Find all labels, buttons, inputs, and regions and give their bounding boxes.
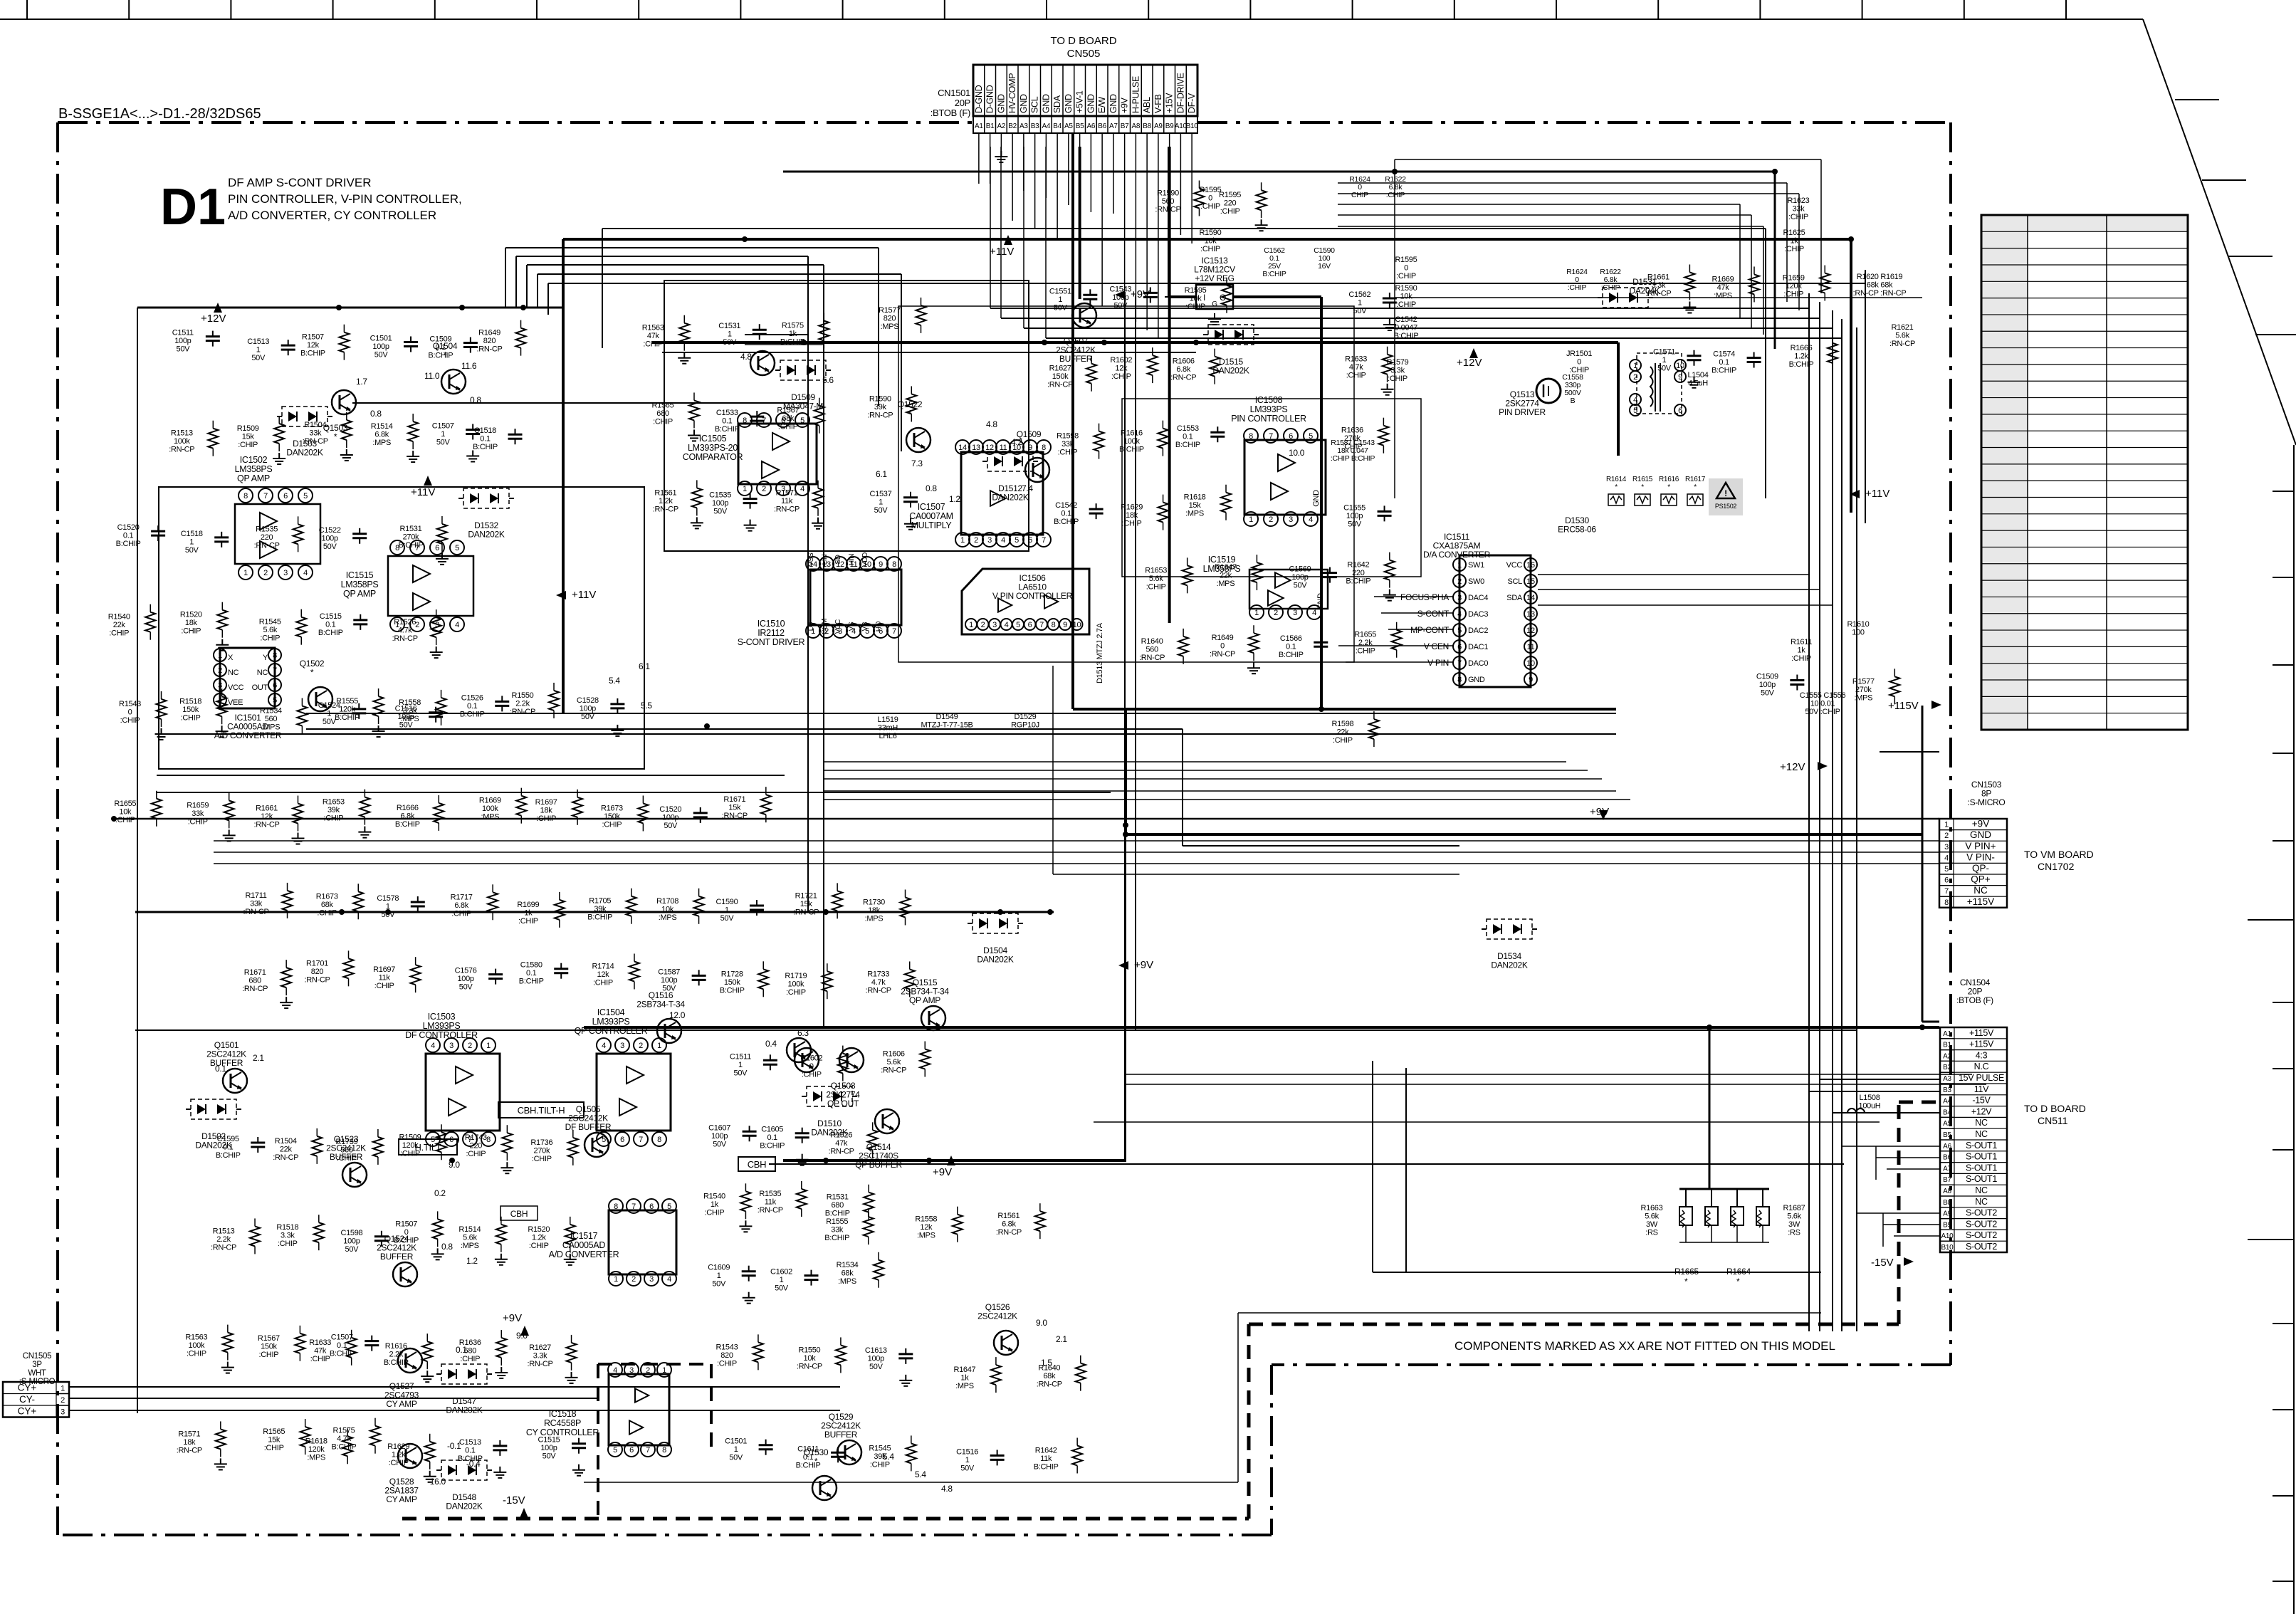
svg-text:R1565: R1565 <box>652 401 674 409</box>
svg-text:120k: 120k <box>1786 282 1802 290</box>
svg-text:5: 5 <box>667 1202 671 1211</box>
svg-text:1: 1 <box>614 1275 618 1284</box>
svg-text:6.8k: 6.8k <box>454 901 468 910</box>
svg-text:R1540: R1540 <box>108 613 130 622</box>
svg-text:33k: 33k <box>309 429 322 438</box>
svg-text:1: 1 <box>243 569 248 577</box>
svg-text:3: 3 <box>629 1366 634 1375</box>
svg-text::CHIP: :CHIP <box>278 1240 298 1248</box>
svg-text:DAC2: DAC2 <box>1468 627 1488 635</box>
svg-text:R1673: R1673 <box>601 804 623 812</box>
svg-text:R1614: R1614 <box>1606 476 1627 483</box>
svg-text:R1518: R1518 <box>276 1223 298 1232</box>
svg-text:2: 2 <box>631 1275 636 1284</box>
svg-text::RN-CP: :RN-CP <box>797 1362 822 1371</box>
svg-text:R1618: R1618 <box>1184 493 1206 502</box>
svg-text:100k: 100k <box>1123 437 1140 446</box>
svg-text:R1567: R1567 <box>777 407 799 415</box>
svg-text:100p: 100p <box>661 976 677 985</box>
svg-text:DF-DRIVE: DF-DRIVE <box>1175 73 1185 113</box>
svg-text:+9V: +9V <box>503 1312 522 1324</box>
svg-text:100k: 100k <box>174 437 190 446</box>
svg-text:R1598: R1598 <box>1057 432 1079 441</box>
svg-text:C1555: C1555 <box>1343 503 1365 512</box>
svg-text:R1653: R1653 <box>1145 566 1167 575</box>
svg-text:0.1: 0.1 <box>215 1064 226 1074</box>
svg-text::MPS: :MPS <box>1854 693 1872 702</box>
svg-text::RN-CP: :RN-CP <box>1889 340 1915 348</box>
svg-text::RN-CP: :RN-CP <box>793 908 819 916</box>
svg-text::RN-CP: :RN-CP <box>169 446 194 454</box>
svg-text:B8: B8 <box>1143 122 1151 130</box>
svg-text:DAN202K: DAN202K <box>992 493 1029 503</box>
svg-text:R1558: R1558 <box>915 1215 937 1224</box>
svg-text:V PIN: V PIN <box>1427 658 1449 668</box>
svg-text:0.1: 0.1 <box>456 1345 467 1355</box>
svg-text:GND: GND <box>1086 94 1096 113</box>
svg-text:68k: 68k <box>1043 1372 1056 1380</box>
svg-text:4: 4 <box>1944 854 1949 862</box>
svg-text:B:CHIP: B:CHIP <box>1054 518 1079 526</box>
svg-text:CBH: CBH <box>510 1209 528 1219</box>
svg-text:VS: VS <box>848 622 856 631</box>
svg-text:5.4: 5.4 <box>609 676 620 686</box>
svg-text:1k: 1k <box>1797 646 1805 655</box>
svg-text:C1605: C1605 <box>761 1126 783 1134</box>
svg-text:6: 6 <box>1457 643 1462 651</box>
svg-text:1: 1 <box>1457 561 1462 570</box>
svg-text:+9V: +9V <box>1972 819 1989 829</box>
svg-text::MPS: :MPS <box>307 1453 325 1462</box>
svg-text:*: * <box>1736 1277 1740 1287</box>
svg-text:1.2k: 1.2k <box>392 1450 406 1459</box>
svg-text:S-OUT2: S-OUT2 <box>1966 1219 1997 1229</box>
svg-text:MTZJ-T-77-15B: MTZJ-T-77-15B <box>921 721 973 730</box>
svg-text:D-GND: D-GND <box>985 85 995 113</box>
svg-text:2SB734-T-34: 2SB734-T-34 <box>636 1000 685 1010</box>
svg-text:R1531: R1531 <box>827 1193 849 1202</box>
svg-text:5.4: 5.4 <box>883 1452 894 1462</box>
svg-text:150k: 150k <box>1052 372 1069 381</box>
svg-text:100p: 100p <box>372 342 389 351</box>
svg-text:GND: GND <box>996 94 1006 113</box>
svg-text:R1535: R1535 <box>256 525 278 533</box>
svg-text:-0.4: -0.4 <box>466 1459 481 1469</box>
svg-text:C1562: C1562 <box>1348 290 1370 299</box>
svg-text:B:CHIP: B:CHIP <box>824 1234 849 1242</box>
svg-text:1: 1 <box>327 709 331 718</box>
svg-text:5: 5 <box>1016 621 1020 629</box>
svg-text:*: * <box>1615 483 1618 491</box>
svg-text:0.8: 0.8 <box>470 395 481 405</box>
svg-text:A8: A8 <box>1132 122 1141 130</box>
svg-text::CHIP: :CHIP <box>1601 283 1620 292</box>
svg-text:B10: B10 <box>1941 1244 1954 1252</box>
svg-text:R1595: R1595 <box>1185 286 1207 295</box>
svg-text:8: 8 <box>1249 432 1253 441</box>
svg-text:560: 560 <box>340 1146 353 1154</box>
svg-text:5.6k: 5.6k <box>1787 1212 1801 1221</box>
svg-text:C1607: C1607 <box>708 1123 730 1132</box>
svg-text:50V: 50V <box>542 1452 557 1461</box>
svg-text:R1555: R1555 <box>826 1217 848 1226</box>
svg-text:V PIN-: V PIN- <box>1966 851 1995 862</box>
svg-text::CHIP: :CHIP <box>778 423 798 431</box>
svg-text:R1602: R1602 <box>800 1054 822 1063</box>
svg-text:50V: 50V <box>874 506 888 515</box>
svg-text:MP-CONT: MP-CONT <box>1410 625 1450 635</box>
svg-text:5: 5 <box>1457 627 1462 635</box>
svg-text:C1520: C1520 <box>117 523 140 532</box>
svg-text:4.5uH: 4.5uH <box>1688 379 1708 388</box>
svg-text:DAN202K: DAN202K <box>286 448 323 458</box>
svg-text:100p: 100p <box>343 1237 360 1245</box>
svg-text:9: 9 <box>1678 373 1682 382</box>
svg-text:R1513: R1513 <box>171 429 193 438</box>
svg-text:R1595: R1595 <box>1200 186 1222 194</box>
svg-text:CY-: CY- <box>19 1394 35 1405</box>
svg-text:B1: B1 <box>1943 1042 1951 1049</box>
svg-text:S-OUT2: S-OUT2 <box>1966 1208 1997 1218</box>
svg-text::RN-CP: :RN-CP <box>254 541 280 550</box>
svg-text::CHIP: :CHIP <box>181 627 201 636</box>
svg-text::CHIP: :CHIP <box>1396 300 1416 309</box>
svg-text:QP CONTROLLER: QP CONTROLLER <box>575 1026 648 1036</box>
svg-text:14: 14 <box>958 444 967 452</box>
svg-text:A7: A7 <box>1943 1165 1951 1173</box>
svg-text:3: 3 <box>1293 609 1297 617</box>
svg-text:1: 1 <box>780 1276 784 1284</box>
svg-text:R1507: R1507 <box>302 333 324 342</box>
svg-text:B:CHIP: B:CHIP <box>216 1151 241 1160</box>
svg-text::RN-CP: :RN-CP <box>510 708 535 716</box>
svg-text::RN-CP: :RN-CP <box>1139 654 1165 662</box>
svg-text:R1705: R1705 <box>589 897 611 906</box>
svg-text:B:CHIP: B:CHIP <box>1279 651 1304 659</box>
svg-text:2: 2 <box>61 1396 65 1405</box>
svg-text:1: 1 <box>743 485 747 493</box>
svg-text:1.2: 1.2 <box>949 494 960 504</box>
svg-text:R1509: R1509 <box>399 1133 421 1141</box>
svg-text:1: 1 <box>1058 295 1062 304</box>
svg-text:1k: 1k <box>960 1374 969 1383</box>
svg-text:COMPONENTS MARKED AS XX ARE NO: COMPONENTS MARKED AS XX ARE NOT FITTED O… <box>1454 1339 1835 1353</box>
svg-text:15k: 15k <box>728 804 741 812</box>
svg-text:B9: B9 <box>1943 1221 1951 1229</box>
svg-text:R1743: R1743 <box>465 1133 487 1142</box>
svg-text:8: 8 <box>1042 444 1046 452</box>
svg-text:10k: 10k <box>804 1354 817 1363</box>
svg-text:C1515: C1515 <box>538 1436 560 1445</box>
svg-text:0.1: 0.1 <box>1719 358 1729 367</box>
svg-text:4: 4 <box>602 1042 606 1050</box>
svg-text:V PIN+: V PIN+ <box>1965 841 1996 851</box>
svg-text:R1642: R1642 <box>1347 561 1369 570</box>
svg-text:DAN202K: DAN202K <box>1491 960 1528 970</box>
svg-text:B:CHIP: B:CHIP <box>715 425 740 434</box>
svg-text:R1671: R1671 <box>244 968 266 977</box>
svg-text:6: 6 <box>620 1136 624 1144</box>
svg-text:100p: 100p <box>1112 293 1128 302</box>
svg-text:6: 6 <box>1289 432 1293 441</box>
svg-text:B:CHIP: B:CHIP <box>587 913 612 922</box>
svg-text:R1598: R1598 <box>1331 720 1353 728</box>
svg-text:50V: 50V <box>734 1069 748 1077</box>
svg-text:12.0: 12.0 <box>669 1010 686 1020</box>
svg-text:B:CHIP: B:CHIP <box>825 1210 850 1218</box>
svg-text::RS: :RS <box>1645 1229 1657 1237</box>
svg-text:4:3: 4:3 <box>1976 1050 1988 1060</box>
svg-text:C1576: C1576 <box>455 967 477 975</box>
svg-text::CHIP: :CHIP <box>1791 654 1811 663</box>
svg-text:3: 3 <box>1289 515 1293 524</box>
svg-text::MPS: :MPS <box>955 1382 974 1390</box>
svg-text:DF AMP S-CONT DRIVER: DF AMP S-CONT DRIVER <box>228 176 372 189</box>
svg-text:R1653: R1653 <box>323 798 345 807</box>
svg-text:R1666: R1666 <box>1791 344 1813 352</box>
svg-text:R1610: R1610 <box>1847 620 1870 629</box>
svg-text:A4: A4 <box>1042 122 1051 130</box>
svg-text:GND: GND <box>1041 94 1051 113</box>
svg-text:C1509: C1509 <box>429 335 451 344</box>
svg-text:10 0.01: 10 0.01 <box>1810 700 1835 708</box>
svg-text:1k: 1k <box>524 908 533 917</box>
svg-text:G: G <box>1212 300 1217 308</box>
svg-text::CHIP: :CHIP <box>518 917 538 926</box>
svg-text:50V: 50V <box>1348 520 1362 528</box>
svg-text:R1728: R1728 <box>721 970 743 978</box>
svg-text:R1509: R1509 <box>237 424 259 433</box>
svg-text:1: 1 <box>965 1456 970 1464</box>
svg-text:1: 1 <box>657 1042 661 1050</box>
svg-text:2: 2 <box>468 1042 472 1050</box>
svg-text:1: 1 <box>218 651 222 660</box>
svg-text::RN-CP: :RN-CP <box>253 821 279 829</box>
svg-text:5: 5 <box>800 416 804 425</box>
svg-text:3W: 3W <box>1646 1220 1658 1229</box>
svg-text:WHT: WHT <box>28 1369 46 1378</box>
svg-text:*: * <box>334 432 337 442</box>
svg-text:C1611: C1611 <box>797 1445 819 1453</box>
svg-text:B:CHIP: B:CHIP <box>1711 367 1736 375</box>
svg-text:3: 3 <box>283 569 288 577</box>
svg-text:MULTIPLY: MULTIPLY <box>911 520 953 530</box>
svg-text:680: 680 <box>831 1201 844 1210</box>
svg-text:R1543: R1543 <box>715 1343 738 1351</box>
svg-text:5.6k: 5.6k <box>463 1233 477 1242</box>
svg-text:C1543: C1543 <box>1109 285 1131 293</box>
svg-text:R1563: R1563 <box>642 324 664 332</box>
svg-text:3: 3 <box>620 1042 624 1050</box>
svg-text:3: 3 <box>649 1275 654 1284</box>
svg-text:2: 2 <box>1269 515 1273 524</box>
svg-text::MPS: :MPS <box>481 813 499 822</box>
svg-text:B8: B8 <box>1943 1199 1951 1207</box>
svg-text:H.TILT: H.TILT <box>415 1142 441 1153</box>
svg-text:4.8: 4.8 <box>941 1484 953 1494</box>
svg-text:9: 9 <box>879 560 883 569</box>
svg-text:0: 0 <box>1404 264 1408 273</box>
svg-text:R1736: R1736 <box>530 1138 552 1147</box>
svg-text:20P: 20P <box>955 98 970 108</box>
svg-text:+115V: +115V <box>1888 700 1919 712</box>
svg-text::RN-CP: :RN-CP <box>881 1067 906 1075</box>
svg-text:COMPARATOR: COMPARATOR <box>683 452 743 462</box>
svg-text:R1629: R1629 <box>1121 503 1143 512</box>
svg-text:1: 1 <box>725 906 729 915</box>
svg-text:50V: 50V <box>436 438 451 446</box>
svg-text:NC: NC <box>1975 1129 1988 1139</box>
svg-text:11k: 11k <box>765 1198 777 1206</box>
svg-text:C1609: C1609 <box>708 1264 730 1272</box>
svg-text:DAC4: DAC4 <box>1468 594 1488 602</box>
svg-text:1: 1 <box>256 346 261 355</box>
svg-text::CHIP B:CHIP: :CHIP B:CHIP <box>1331 454 1375 463</box>
svg-text:GND: GND <box>1064 94 1074 113</box>
svg-text:5: 5 <box>1944 865 1949 874</box>
svg-text:50V: 50V <box>662 984 676 992</box>
svg-text:B5: B5 <box>1943 1131 1951 1139</box>
svg-text:R1534: R1534 <box>260 707 282 716</box>
svg-text:B:CHIP: B:CHIP <box>384 1358 409 1367</box>
svg-text:+11V: +11V <box>411 486 435 498</box>
svg-text:7: 7 <box>1944 887 1949 896</box>
svg-text:220: 220 <box>1224 199 1237 208</box>
svg-text:B10: B10 <box>1186 122 1199 130</box>
svg-text::MPS: :MPS <box>917 1232 935 1240</box>
svg-text:0.1: 0.1 <box>526 969 537 978</box>
svg-text:0.1: 0.1 <box>722 417 733 426</box>
svg-text:0.8: 0.8 <box>441 1242 453 1252</box>
svg-text::CHIP: :CHIP <box>643 340 663 349</box>
svg-text:1: 1 <box>1358 298 1362 307</box>
svg-text:10k: 10k <box>1205 237 1217 246</box>
svg-text:6.8k: 6.8k <box>1176 365 1190 374</box>
svg-text:RGP10J: RGP10J <box>1011 721 1039 730</box>
svg-text:!: ! <box>1724 488 1727 498</box>
svg-text:DAN202K: DAN202K <box>468 530 505 540</box>
svg-text:R1625: R1625 <box>1783 229 1805 237</box>
svg-text:50V: 50V <box>1761 689 1775 698</box>
svg-text:4: 4 <box>303 569 308 577</box>
svg-text:C1569: C1569 <box>1289 565 1311 574</box>
svg-text:R1565: R1565 <box>263 1427 285 1436</box>
svg-text::CHIP: :CHIP <box>188 817 208 826</box>
svg-text:12: 12 <box>1526 627 1535 635</box>
svg-text:R1617: R1617 <box>1685 476 1706 483</box>
svg-text:LM358PS: LM358PS <box>341 580 379 589</box>
svg-text:12k: 12k <box>920 1223 933 1232</box>
svg-text:820: 820 <box>311 968 324 976</box>
svg-text:VDD: VDD <box>861 552 869 567</box>
svg-text:50V: 50V <box>345 1245 360 1254</box>
svg-text:CY AMP: CY AMP <box>386 1399 417 1409</box>
svg-text:RC4558P: RC4558P <box>544 1418 581 1428</box>
svg-text:0.1: 0.1 <box>465 1446 476 1455</box>
svg-text:HO: HO <box>875 621 883 632</box>
svg-text::CHIP: :CHIP <box>264 1444 284 1452</box>
svg-text:R1526: R1526 <box>830 1131 852 1139</box>
svg-text::CHIP: :CHIP <box>460 1355 480 1363</box>
svg-text:6: 6 <box>1028 536 1032 545</box>
svg-text:C1590: C1590 <box>715 898 738 906</box>
svg-text:1: 1 <box>1944 821 1949 829</box>
svg-text:R1531: R1531 <box>399 525 421 533</box>
svg-text:C1513: C1513 <box>459 1438 481 1447</box>
svg-text:R1633: R1633 <box>1345 355 1367 364</box>
svg-text:B:CHIP: B:CHIP <box>318 629 343 637</box>
svg-text:8: 8 <box>614 1202 618 1211</box>
svg-text:1k: 1k <box>789 330 797 338</box>
svg-text:A1: A1 <box>975 122 983 130</box>
svg-text::RN-CP: :RN-CP <box>211 1243 236 1252</box>
svg-text:9: 9 <box>1063 621 1067 629</box>
svg-text:R1629: R1629 <box>387 1442 409 1451</box>
svg-text:5.6k: 5.6k <box>1895 332 1909 340</box>
svg-text:7: 7 <box>1269 432 1273 441</box>
svg-text::CHIP: :CHIP <box>593 978 613 987</box>
svg-text:R1655: R1655 <box>114 800 136 808</box>
svg-text:14: 14 <box>1526 594 1535 602</box>
svg-text:B2: B2 <box>1943 1064 1951 1071</box>
svg-text:50V: 50V <box>177 345 191 354</box>
svg-text:7: 7 <box>639 1136 643 1144</box>
svg-text:+115V: +115V <box>1967 896 1994 907</box>
svg-text:4.8: 4.8 <box>986 419 997 429</box>
svg-text:68k: 68k <box>321 901 334 909</box>
svg-text:HIN: HIN <box>848 554 856 565</box>
svg-text:R1518: R1518 <box>179 697 201 706</box>
svg-text:R1664: R1664 <box>1726 1267 1751 1277</box>
svg-text::CHIP: :CHIP <box>802 1071 822 1079</box>
svg-text:8: 8 <box>273 651 277 660</box>
svg-text:R1504: R1504 <box>275 1137 297 1146</box>
svg-text:S-OUT2: S-OUT2 <box>1966 1230 1997 1240</box>
svg-text:C1555 C1556: C1555 C1556 <box>1800 691 1846 700</box>
svg-text:B7: B7 <box>1121 122 1129 130</box>
svg-text:47k: 47k <box>835 1139 848 1148</box>
svg-text:QP+: QP+ <box>1971 874 1991 885</box>
svg-text:R1633: R1633 <box>309 1338 331 1347</box>
svg-text:10: 10 <box>1676 362 1684 370</box>
svg-text:R1640: R1640 <box>1141 637 1163 646</box>
svg-text::RN-CP: :RN-CP <box>304 975 330 984</box>
svg-text:L1504: L1504 <box>1687 371 1708 379</box>
svg-text:R1719: R1719 <box>785 972 807 980</box>
svg-text:C1533: C1533 <box>716 409 738 417</box>
svg-text:R1595: R1595 <box>1395 256 1417 264</box>
svg-text::RN-CP :RN-CP: :RN-CP :RN-CP <box>1853 289 1907 298</box>
svg-text:IC1508: IC1508 <box>1255 395 1283 405</box>
svg-text:10.0: 10.0 <box>1289 448 1305 458</box>
svg-text:R1649: R1649 <box>478 329 500 337</box>
svg-text::CHIP: :CHIP <box>1784 245 1804 253</box>
svg-text:B9: B9 <box>1165 122 1174 130</box>
svg-text:7: 7 <box>1039 621 1044 629</box>
svg-text:7.4: 7.4 <box>1022 483 1033 493</box>
svg-text:10k: 10k <box>661 905 674 913</box>
svg-text::CHIP: :CHIP <box>115 816 135 824</box>
svg-text::CHIP: :CHIP <box>310 1355 330 1363</box>
svg-text:R1647: R1647 <box>953 1366 975 1374</box>
svg-text:S-OUT1: S-OUT1 <box>1966 1152 1997 1162</box>
svg-text:1: 1 <box>969 621 973 629</box>
svg-text::CHIP: :CHIP <box>1396 272 1416 281</box>
svg-text:NC: NC <box>257 669 268 677</box>
svg-text:LM358PS: LM358PS <box>235 464 273 474</box>
svg-text:10k: 10k <box>1190 294 1202 303</box>
svg-text:0.1: 0.1 <box>123 532 134 540</box>
